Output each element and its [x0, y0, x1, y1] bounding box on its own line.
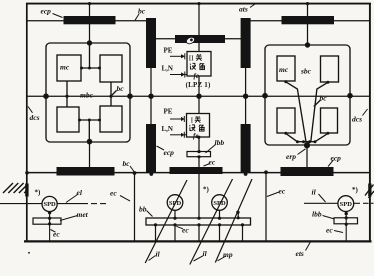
svg-text:il: il — [203, 249, 208, 258]
svg-text:bc: bc — [320, 94, 328, 103]
svg-text:mbc: mbc — [80, 91, 94, 100]
svg-text:ets: ets — [296, 249, 304, 258]
svg-text:(LPZ 1): (LPZ 1) — [186, 81, 211, 89]
svg-text:dcs: dcs — [352, 115, 362, 124]
svg-text:I: I — [191, 116, 194, 125]
svg-text:SPD: SPD — [43, 201, 56, 208]
svg-text:ecp: ecp — [331, 154, 342, 163]
svg-text:L,N: L,N — [162, 65, 173, 73]
svg-text:bc: bc — [138, 7, 146, 16]
svg-text:bb: bb — [139, 205, 147, 214]
svg-text:II: II — [189, 54, 195, 63]
svg-text:lbb: lbb — [312, 210, 322, 219]
svg-text:lbb: lbb — [215, 138, 225, 147]
svg-text:el: el — [77, 188, 83, 197]
svg-text:*): *) — [35, 189, 42, 197]
svg-text:PE: PE — [164, 47, 173, 55]
svg-text:erp: erp — [286, 152, 296, 161]
svg-text:mp: mp — [223, 250, 233, 259]
svg-text:SPD: SPD — [340, 201, 353, 208]
svg-text:mc: mc — [60, 63, 70, 72]
svg-text:ecp: ecp — [164, 148, 175, 157]
svg-text:dcs: dcs — [30, 113, 40, 122]
svg-text:ec: ec — [182, 226, 189, 235]
svg-text:il: il — [156, 250, 161, 259]
svg-text:ec: ec — [279, 187, 286, 196]
svg-text:*): *) — [203, 186, 210, 194]
svg-text:ecp: ecp — [41, 7, 52, 16]
svg-text:bc: bc — [123, 159, 131, 168]
svg-text:SPD: SPD — [213, 200, 226, 207]
svg-text:*): *) — [352, 186, 359, 194]
svg-text:ec: ec — [110, 189, 117, 198]
svg-text:il: il — [312, 188, 317, 197]
svg-text:mc: mc — [279, 65, 289, 74]
svg-text:L,N: L,N — [162, 125, 173, 133]
svg-text:ats: ats — [239, 5, 248, 14]
svg-text:SPD: SPD — [169, 200, 182, 207]
svg-text:sbc: sbc — [300, 67, 312, 76]
svg-text:ec: ec — [53, 230, 60, 239]
svg-text:fe: fe — [193, 132, 198, 140]
svg-text:ec: ec — [209, 158, 216, 167]
svg-text:fe: fe — [194, 72, 199, 80]
svg-text:bc: bc — [117, 84, 125, 93]
svg-text:ec: ec — [326, 226, 333, 235]
svg-text:met: met — [77, 210, 89, 219]
svg-text:PE: PE — [164, 108, 173, 116]
